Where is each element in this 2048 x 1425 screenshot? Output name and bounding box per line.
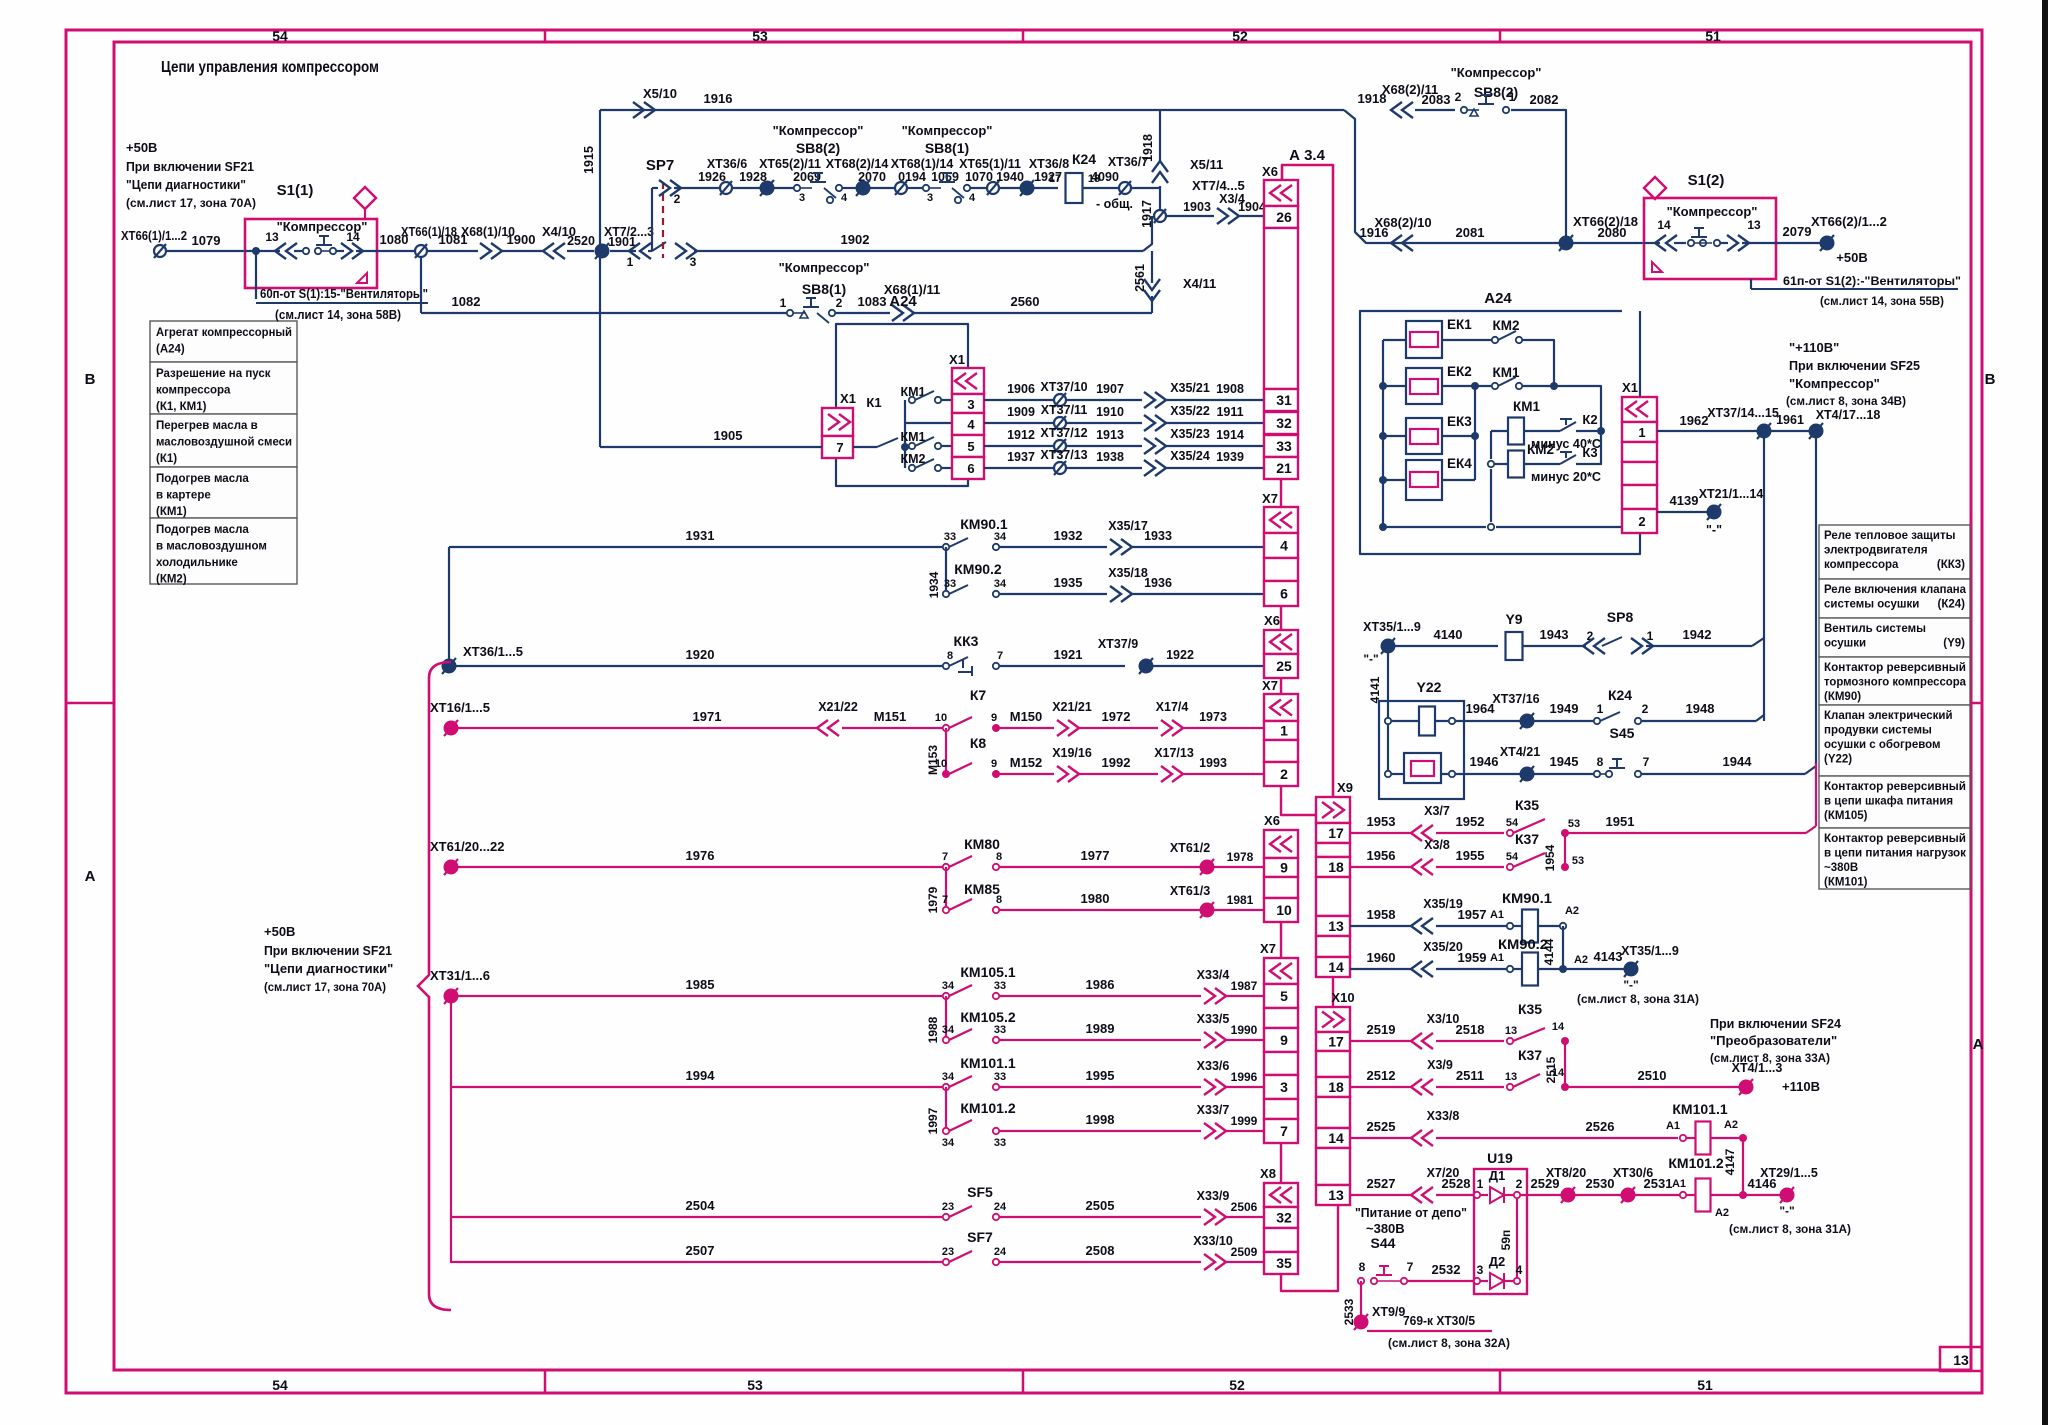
right note box 2: Реле включения клапана: [1819, 579, 1970, 618]
wire 1979 link: [926, 867, 946, 913]
wire 4139: [1657, 493, 1708, 512]
svg-text:7: 7: [942, 851, 948, 863]
svg-text:1971: 1971: [693, 709, 722, 724]
svg-text:34: 34: [942, 980, 955, 992]
svg-text:ХТ35/1...9: ХТ35/1...9: [1621, 944, 1679, 958]
svg-text:1978: 1978: [1227, 850, 1254, 864]
svg-text:в картере: в картере: [156, 490, 211, 502]
svg-text:2: 2: [1638, 514, 1645, 529]
svg-text:4140: 4140: [1434, 627, 1463, 642]
svg-text:При включении SF25: При включении SF25: [1789, 358, 1920, 373]
svg-text:17: 17: [1049, 173, 1061, 185]
contact K1: [853, 395, 909, 451]
wire 1999: [1224, 1114, 1264, 1131]
terminal ХТ37/13: [1040, 448, 1087, 475]
svg-text:1918: 1918: [1141, 134, 1155, 162]
svg-text:ХТ37/13: ХТ37/13: [1040, 448, 1087, 462]
svg-text:ХТ36/1...5: ХТ36/1...5: [463, 644, 523, 659]
heater EK4: [1406, 456, 1472, 500]
wire 4140: [1394, 627, 1498, 646]
svg-text:1939: 1939: [1216, 450, 1244, 464]
svg-text:34: 34: [942, 1137, 955, 1149]
svg-text:24: 24: [994, 1201, 1007, 1213]
wire 1956: [1350, 848, 1412, 867]
svg-text:Х68(2)/10: Х68(2)/10: [1374, 215, 1431, 230]
connector X33/9: [1197, 1189, 1230, 1225]
svg-text:"Цепи диагностики": "Цепи диагностики": [264, 961, 393, 976]
wire 2527: [1350, 1176, 1412, 1195]
svg-text:1999: 1999: [1231, 1114, 1258, 1128]
svg-text:Х35/24: Х35/24: [1170, 449, 1210, 463]
wire 1945: [1533, 754, 1594, 774]
svg-text:2: 2: [1642, 702, 1649, 716]
svg-text:10: 10: [1276, 902, 1292, 918]
right note box 7: Контактор реверсивный: [1819, 828, 1970, 889]
wire 1949: [1533, 701, 1594, 721]
svg-text:Реле тепловое защиты: Реле тепловое защиты: [1824, 530, 1956, 542]
svg-text:1: 1: [1638, 425, 1645, 440]
svg-text:1976: 1976: [686, 848, 715, 863]
svg-text:ХТ21/1...14: ХТ21/1...14: [1699, 487, 1764, 501]
svg-text:(см.лист 17, зона 70А): (см.лист 17, зона 70А): [126, 196, 256, 210]
wire 1978: [1213, 850, 1264, 867]
svg-text:1903: 1903: [1183, 200, 1211, 214]
left note box 5: Подогрев масла: [150, 518, 297, 586]
wire 1939: [1164, 450, 1264, 468]
svg-text:Подогрев масла: Подогрев масла: [156, 524, 249, 536]
connector X33/8: [1411, 1109, 1459, 1146]
connector X68(2)/11: [1382, 82, 1438, 118]
wire 1902: [694, 232, 1143, 251]
wire 1916 right: [1355, 225, 1560, 243]
valve unit Y22 box: [1379, 679, 1464, 799]
wire row 4 internal: [905, 422, 952, 424]
svg-text:SB8(1): SB8(1): [925, 140, 969, 156]
contact K24 1-2: [1594, 687, 1649, 724]
svg-text:Х35/17: Х35/17: [1108, 519, 1148, 533]
svg-text:2: 2: [1455, 90, 1462, 104]
terminal XT30/6: [1613, 1166, 1653, 1203]
svg-text:Х19/16: Х19/16: [1052, 746, 1092, 760]
svg-text:17: 17: [1328, 1034, 1344, 1050]
svg-text:4143: 4143: [1594, 949, 1623, 964]
connector X33/4: [1197, 968, 1230, 1004]
svg-text:А1: А1: [1490, 909, 1504, 921]
switch S1(2) box: [1644, 172, 1776, 279]
terminal strip X6 (row 25): [1264, 613, 1298, 678]
terminal XT66(1)/18: [401, 224, 457, 258]
svg-text:При включении SF21: При включении SF21: [264, 943, 392, 958]
svg-text:+50В: +50В: [1836, 250, 1867, 265]
svg-text:2083: 2083: [1422, 92, 1451, 107]
svg-text:КК3: КК3: [954, 633, 979, 649]
svg-text:ХТ37/12: ХТ37/12: [1040, 426, 1087, 440]
wire 1904: [1237, 200, 1266, 216]
svg-text:1922: 1922: [1166, 648, 1194, 662]
riser XT37/14...15 to 1942/1948: [1763, 437, 1765, 721]
terminal XT16/1...5: [430, 700, 490, 736]
heater right bus: [1442, 386, 1479, 480]
svg-text:Х35/22: Х35/22: [1170, 404, 1210, 418]
svg-text:3: 3: [967, 397, 974, 412]
svg-text:1945: 1945: [1550, 754, 1579, 769]
wire 1971: [457, 709, 818, 728]
svg-text:2: 2: [1280, 766, 1288, 782]
terminal XT37/14...15: [1707, 406, 1779, 439]
svg-text:1993: 1993: [1199, 756, 1227, 770]
relay coil KM1 (thermo): [1491, 399, 1560, 445]
contact K35 54-53: [1506, 797, 1580, 837]
svg-text:S1(2): S1(2): [1688, 172, 1725, 189]
connector X3/4: [1217, 192, 1245, 224]
heater EK1: [1406, 317, 1472, 358]
svg-text:SF7: SF7: [967, 1229, 993, 1245]
svg-text:54: 54: [272, 28, 288, 44]
svg-text:1973: 1973: [1199, 710, 1227, 724]
svg-text:(К1, КМ1): (К1, КМ1): [156, 401, 207, 413]
svg-text:А24: А24: [889, 293, 917, 310]
svg-text:2526: 2526: [1586, 1119, 1615, 1134]
connector X5/11: [1152, 157, 1223, 183]
wire 2512: [1350, 1068, 1412, 1087]
svg-text:1957: 1957: [1458, 907, 1487, 922]
terminal XT35/1...9 right: [1577, 944, 1699, 1006]
wire 1918 top right: [1344, 91, 1386, 243]
svg-text:+110В: +110В: [1782, 1079, 1820, 1094]
contact KM101.2 34-33: [942, 1100, 1016, 1149]
connector X5/10: [633, 86, 677, 118]
svg-text:КМ90.2: КМ90.2: [1498, 936, 1548, 952]
svg-text:33: 33: [994, 1071, 1006, 1083]
svg-text:ХТ29/1...5: ХТ29/1...5: [1760, 1166, 1818, 1180]
svg-text:К3: К3: [1582, 445, 1597, 460]
svg-text:+50В: +50В: [264, 924, 295, 939]
terminal ХТ37/12: [1040, 426, 1087, 453]
svg-text:А1: А1: [1490, 952, 1504, 964]
contact K35 13-14: [1505, 1001, 1569, 1045]
wire 2081: [1456, 225, 1485, 240]
svg-text:1912: 1912: [1007, 428, 1035, 442]
right note box 4: Контактор реверсивный: [1819, 657, 1970, 705]
svg-text:17: 17: [1328, 825, 1344, 841]
svg-text:2527: 2527: [1367, 1176, 1396, 1191]
terminal XT66(2)/1...2: [1811, 214, 1887, 265]
svg-text:Х17/4: Х17/4: [1156, 700, 1189, 714]
wire 1955: [1436, 848, 1504, 867]
node K1 bus: [904, 400, 906, 468]
wire 1934 drop: [927, 547, 946, 598]
connector X35/20: [1411, 940, 1463, 977]
svg-text:5: 5: [1280, 988, 1288, 1004]
svg-text:2: 2: [1516, 1177, 1523, 1191]
wire 1951: [1565, 814, 1816, 833]
svg-text:7: 7: [1407, 1260, 1414, 1274]
svg-text:6: 6: [1280, 586, 1288, 602]
svg-text:(см.лист 8, зона 32А): (см.лист 8, зона 32А): [1388, 1336, 1510, 1350]
strip link X8-X10 bottom: [1281, 1205, 1338, 1291]
svg-text:59п: 59п: [1499, 1230, 1513, 1251]
wire 2511: [1436, 1068, 1504, 1087]
svg-text:КМ105.2: КМ105.2: [960, 1009, 1015, 1025]
contact KM2 (EK1 row): [1442, 318, 1558, 390]
svg-text:X4/11: X4/11: [1183, 276, 1216, 291]
svg-text:34: 34: [942, 1024, 955, 1036]
wire 2083: [1415, 92, 1455, 110]
svg-text:34: 34: [994, 578, 1007, 590]
svg-text:33: 33: [1276, 438, 1292, 454]
svg-text:ХТ37/11: ХТ37/11: [1041, 403, 1088, 417]
svg-text:1964: 1964: [1466, 701, 1496, 716]
contact KM1 (row 5): [901, 430, 953, 449]
svg-text:минус 20*С: минус 20*С: [1531, 469, 1602, 484]
terminal strip X7 (rows 5,9,3,7): [1260, 941, 1298, 1143]
svg-text:13: 13: [265, 230, 279, 244]
svg-text:14: 14: [1552, 1067, 1565, 1079]
zone label 54 bottom: [272, 1377, 288, 1393]
svg-text:Х3/7: Х3/7: [1424, 804, 1450, 818]
svg-text:54: 54: [272, 1377, 288, 1393]
svg-text:компрессора: компрессора: [156, 385, 231, 397]
terminal XT36/8: [1020, 180, 1034, 196]
svg-text:Вентиль системы: Вентиль системы: [1824, 623, 1926, 635]
svg-text:(см.лист 14, зона 58В): (см.лист 14, зона 58В): [275, 308, 401, 322]
terminal XT66(1)/1...2: [121, 228, 187, 258]
wire 2519: [1350, 1022, 1412, 1041]
wire 1952: [1436, 814, 1504, 833]
svg-text:в цепи питания нагрузок: в цепи питания нагрузок: [1824, 848, 1966, 860]
wire 1913: [1066, 428, 1142, 446]
svg-text:1960: 1960: [1367, 950, 1396, 965]
connector Х35/22: [1144, 404, 1210, 431]
svg-text:В: В: [85, 371, 96, 388]
svg-text:13: 13: [1328, 1187, 1344, 1203]
breaker contact SF7 23-24: [942, 1229, 1007, 1265]
connector Х35/21: [1144, 381, 1210, 408]
svg-text:54: 54: [1506, 851, 1519, 863]
connector X35/17: [1108, 519, 1148, 555]
breaker contact SF5 23-24: [942, 1184, 1007, 1220]
svg-text:54: 54: [1506, 817, 1519, 829]
svg-text:60п-от S(1):15-"Вентиляторы": 60п-от S(1):15-"Вентиляторы": [260, 287, 428, 301]
wire 1943: [1523, 627, 1586, 646]
svg-text:14: 14: [1328, 959, 1344, 975]
wire 1989: [999, 1021, 1201, 1040]
svg-text:33: 33: [994, 1137, 1006, 1149]
left SF21 brace: [418, 662, 451, 1310]
left note box 4: Подогрев масла: [150, 467, 297, 518]
svg-text:1955: 1955: [1456, 848, 1485, 863]
svg-text:Подогрев масла: Подогрев масла: [156, 473, 249, 485]
svg-text:"Компрессор": "Компрессор": [779, 260, 870, 275]
contact K8 10-9: [935, 735, 1000, 778]
svg-text:14: 14: [1657, 218, 1671, 232]
wire 2533: [1342, 1281, 1361, 1325]
svg-text:1906: 1906: [1007, 382, 1035, 396]
svg-text:2531: 2531: [1644, 1176, 1673, 1191]
svg-text:31: 31: [1276, 392, 1292, 408]
svg-text:"Компрессор": "Компрессор": [1789, 376, 1880, 391]
strip link X6c-X7c: [1280, 922, 1282, 958]
wire M152: [996, 755, 1054, 774]
svg-text:SB8(2): SB8(2): [796, 140, 840, 156]
svg-text:53: 53: [752, 28, 768, 44]
svg-text:1959: 1959: [1458, 950, 1487, 965]
wire 1980: [999, 891, 1201, 910]
connector X33/6: [1197, 1059, 1230, 1095]
svg-text:S44: S44: [1371, 1235, 1396, 1251]
wire M153 link: [926, 728, 946, 775]
svg-text:1904: 1904: [1238, 200, 1266, 214]
terminal XT61/2: [1170, 841, 1214, 875]
connector contact SP8: [1583, 609, 1654, 654]
thermal contact KK3 8-7: [943, 633, 1003, 676]
wire 2506: [1224, 1200, 1264, 1217]
svg-text:SP7: SP7: [646, 157, 674, 174]
svg-text:"Компрессор": "Компрессор": [773, 123, 864, 138]
svg-text:2528: 2528: [1442, 1176, 1471, 1191]
svg-text:4: 4: [1280, 538, 1288, 554]
svg-text:холодильнике: холодильнике: [156, 557, 238, 569]
contact KM90.2 33-34: [943, 561, 1007, 597]
svg-text:SF5: SF5: [967, 1184, 993, 1200]
svg-text:Х35/18: Х35/18: [1108, 566, 1148, 580]
heater EK2: [1406, 364, 1472, 404]
terminal XT65(2)/11: [760, 180, 774, 196]
svg-text:18: 18: [1328, 859, 1344, 875]
wire M150: [996, 709, 1054, 728]
svg-text:Х35/21: Х35/21: [1170, 381, 1210, 395]
svg-text:1: 1: [780, 296, 787, 310]
svg-text:Клапан электрический: Клапан электрический: [1824, 710, 1953, 722]
connector X7/20: [1411, 1166, 1459, 1203]
svg-text:SP8: SP8: [1607, 609, 1634, 625]
svg-text:А24: А24: [1484, 290, 1512, 307]
connector X35/19: [1411, 897, 1463, 934]
svg-text:1916: 1916: [704, 91, 733, 106]
wire 1917: [1140, 186, 1160, 228]
svg-text:КМ85: КМ85: [964, 881, 1000, 897]
svg-text:1997: 1997: [926, 1107, 940, 1134]
wire 1906: [984, 382, 1054, 400]
terminal strip X7 (rows 1,2): [1262, 678, 1298, 786]
wire M151: [842, 709, 944, 728]
row label A right: [1973, 1036, 1984, 1053]
svg-text:М151: М151: [874, 709, 907, 724]
svg-text:ХТ65(2)/11: ХТ65(2)/11: [759, 157, 821, 171]
svg-text:2530: 2530: [1586, 1176, 1615, 1191]
svg-text:2505: 2505: [1086, 1198, 1115, 1213]
terminal XT68(1)/14: [895, 181, 907, 195]
svg-text:Д2: Д2: [1489, 1254, 1506, 1269]
connector X68(1)/10: [461, 224, 515, 259]
svg-text:ХТ16/1...5: ХТ16/1...5: [430, 700, 490, 715]
wire 1916 top run: [600, 91, 1344, 110]
wire 1959: [1436, 950, 1507, 969]
svg-text:Реле включения клапана: Реле включения клапана: [1824, 584, 1967, 596]
wire 1932: [999, 528, 1107, 547]
svg-text:К35: К35: [1515, 797, 1539, 813]
svg-text:1940: 1940: [996, 170, 1024, 184]
svg-text:А1: А1: [1672, 1178, 1686, 1190]
zone tick bottom 53|52: [1022, 1370, 1025, 1393]
svg-text:21: 21: [1276, 460, 1292, 476]
diode unit U19 box: [1474, 1150, 1527, 1294]
svg-text:1981: 1981: [1227, 893, 1254, 907]
svg-text:X7: X7: [1262, 491, 1278, 506]
svg-text:X1: X1: [949, 352, 965, 367]
zone label 51 top: [1705, 28, 1721, 44]
svg-text:А2: А2: [1715, 1207, 1729, 1219]
svg-text:КМ101.1: КМ101.1: [960, 1055, 1015, 1071]
svg-text:ХТ68(1)/14: ХТ68(1)/14: [891, 157, 954, 171]
wire 1933: [1130, 529, 1264, 547]
thermo contact K2: [1531, 412, 1602, 451]
terminal XT37/9: [1098, 637, 1153, 674]
right note box 6: Контактор реверсивный: [1819, 776, 1970, 828]
svg-text:КМ80: КМ80: [964, 836, 1000, 852]
terminal strip X6 (A3.4 upper): [1262, 164, 1298, 479]
svg-text:2510: 2510: [1638, 1068, 1667, 1083]
svg-text:1994: 1994: [686, 1068, 716, 1083]
svg-text:КМ90.1: КМ90.1: [960, 516, 1008, 532]
svg-text:"Компрессор": "Компрессор": [1667, 204, 1758, 219]
svg-text:2511: 2511: [1456, 1068, 1484, 1083]
svg-text:1989: 1989: [1086, 1021, 1115, 1036]
svg-text:X10: X10: [1331, 990, 1354, 1005]
svg-text:(КМ90): (КМ90): [1824, 691, 1861, 703]
svg-text:(КМ105): (КМ105): [1824, 810, 1868, 822]
contact K37 13-14: [1505, 1047, 1569, 1091]
svg-text:(см.лист 8, зона 31А): (см.лист 8, зона 31А): [1577, 992, 1699, 1006]
svg-text:ХТ68(2)/14: ХТ68(2)/14: [826, 157, 889, 171]
svg-text:2512: 2512: [1367, 1068, 1396, 1083]
terminal ХТ37/10: [1040, 380, 1087, 407]
zone tick bottom 54|53: [544, 1370, 547, 1393]
svg-text:1909: 1909: [1007, 405, 1035, 419]
wire 1988 link: [926, 996, 946, 1043]
svg-text:1953: 1953: [1367, 814, 1396, 829]
svg-text:Контактор реверсивный: Контактор реверсивный: [1824, 833, 1966, 845]
svg-text:U19: U19: [1487, 1150, 1513, 1166]
svg-text:18: 18: [1328, 1079, 1344, 1095]
riser 1951 to +110V: [1815, 763, 1817, 826]
wire 1903: [1166, 200, 1214, 216]
svg-text:+50В: +50В: [126, 140, 157, 155]
svg-text:КМ101.1: КМ101.1: [1672, 1101, 1727, 1117]
terminal XT21/1...14: [1699, 487, 1764, 537]
svg-text:14: 14: [346, 230, 360, 244]
svg-text:4147: 4147: [1723, 1148, 1737, 1175]
svg-text:1980: 1980: [1081, 891, 1110, 906]
wire 2560: [912, 294, 1152, 313]
thermo contact K3: [1531, 431, 1602, 484]
svg-text:Х3/10: Х3/10: [1427, 1012, 1460, 1026]
strip link X7c-X8: [1280, 1143, 1282, 1183]
wire 2508: [999, 1243, 1201, 1262]
contact KM90.1 33-34: [943, 516, 1008, 550]
svg-text:1987: 1987: [1231, 979, 1258, 993]
svg-text:1900: 1900: [507, 232, 536, 247]
connector X68(1)/11: [884, 282, 940, 321]
svg-text:4139: 4139: [1670, 493, 1699, 508]
zone label 53 top: [752, 28, 768, 44]
connector Х35/23: [1144, 427, 1210, 454]
wire 1957: [1436, 907, 1507, 926]
svg-text:тормозного компрессора: тормозного компрессора: [1824, 677, 1967, 689]
svg-text:1996: 1996: [1231, 1070, 1258, 1084]
svg-text:7: 7: [1643, 755, 1650, 769]
wire 2531: [1634, 1176, 1680, 1195]
